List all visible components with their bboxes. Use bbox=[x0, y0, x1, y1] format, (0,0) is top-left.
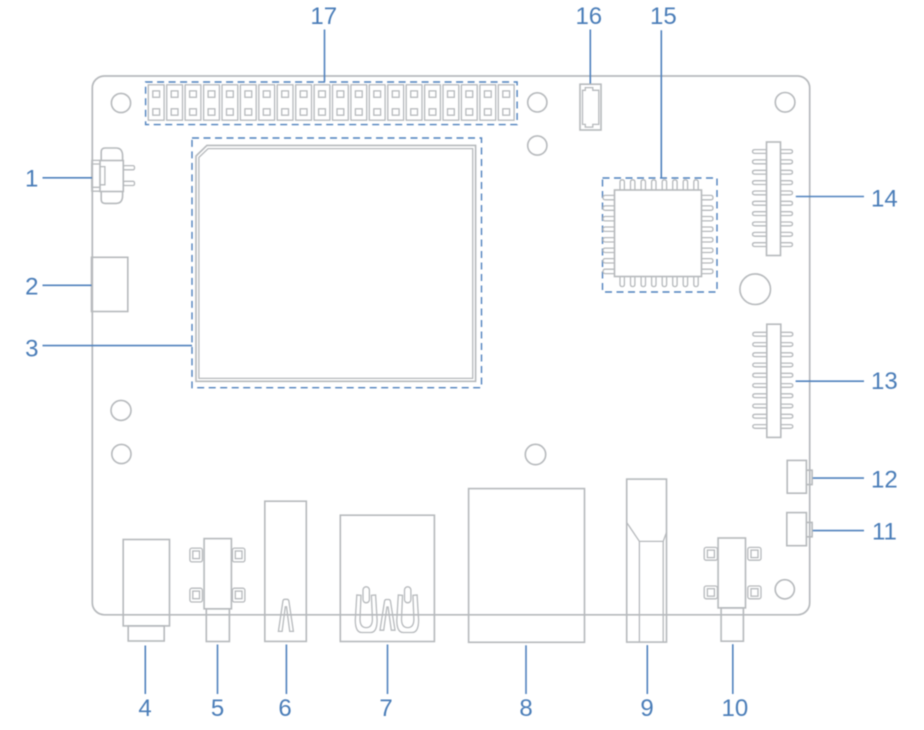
mounting hole top-right bbox=[775, 93, 795, 113]
component 14: dual-row header connector bbox=[753, 142, 793, 256]
svg-text:14: 14 bbox=[871, 186, 898, 213]
leader line 8 bbox=[525, 645, 527, 694]
svg-text:1: 1 bbox=[25, 165, 38, 192]
svg-text:5: 5 bbox=[211, 695, 224, 722]
svg-text:17: 17 bbox=[310, 3, 337, 30]
component 13: dual-row header connector bbox=[753, 324, 793, 437]
component 16: small connector bbox=[580, 84, 601, 130]
svg-text:16: 16 bbox=[575, 3, 602, 30]
label 9 bbox=[640, 695, 653, 722]
svg-text:3: 3 bbox=[25, 335, 38, 362]
svg-text:2: 2 bbox=[25, 274, 38, 301]
label 4 bbox=[138, 695, 151, 722]
mounting hole top-left bbox=[111, 93, 130, 112]
leader line 6 bbox=[285, 645, 287, 695]
svg-text:6: 6 bbox=[278, 695, 291, 722]
leader line 17 bbox=[324, 30, 326, 82]
leader line 1 bbox=[43, 177, 93, 179]
component 11: side button bbox=[787, 513, 812, 546]
svg-text:10: 10 bbox=[722, 695, 749, 722]
svg-text:11: 11 bbox=[872, 519, 897, 546]
leader line 12 bbox=[813, 477, 864, 479]
label 8 bbox=[519, 695, 532, 722]
svg-text:8: 8 bbox=[519, 695, 532, 722]
leader line 5 bbox=[217, 645, 219, 695]
component 8: Ethernet port bbox=[469, 489, 585, 643]
label 12 bbox=[871, 466, 898, 493]
leader line 7 bbox=[387, 645, 389, 695]
leader line 3 bbox=[43, 345, 193, 347]
leader line 2 bbox=[43, 284, 92, 286]
mounting hole mid-left-2 bbox=[112, 444, 131, 463]
label 16 bbox=[575, 3, 602, 30]
mounting hole bottom-center bbox=[525, 444, 545, 464]
component 7: USB 3.0 port bbox=[340, 515, 434, 641]
label 5 bbox=[211, 695, 224, 722]
label 7 bbox=[379, 695, 392, 722]
mounting hole mid-left-1 bbox=[111, 400, 131, 420]
label 13 bbox=[871, 368, 898, 395]
label 6 bbox=[278, 695, 291, 722]
leader line 10 bbox=[732, 644, 734, 694]
label 3 bbox=[25, 335, 38, 362]
label 1 bbox=[25, 165, 38, 192]
hole mid-right large bbox=[740, 274, 771, 305]
label 14 bbox=[871, 186, 898, 213]
mounting hole top-center-1 bbox=[528, 93, 547, 112]
component 4: audio jack bbox=[123, 540, 169, 642]
leader line 4 bbox=[144, 646, 146, 695]
label 17 bbox=[310, 3, 337, 30]
component 12: side button bbox=[787, 460, 812, 493]
component 9: HDMI port bbox=[627, 479, 667, 642]
component 5: micro USB power port bbox=[190, 539, 245, 642]
component 17: 40-pin GPIO header (dashed highlight) bbox=[146, 82, 517, 125]
component 15: QFP chip (dashed highlight) bbox=[603, 178, 718, 292]
board outline bbox=[92, 76, 809, 615]
mounting hole bottom-right bbox=[775, 580, 794, 599]
leader line 14 bbox=[796, 196, 864, 198]
component 3: main SoC chip (dashed highlight) bbox=[192, 138, 482, 388]
svg-text:7: 7 bbox=[379, 695, 392, 722]
mounting hole top-center-2 bbox=[528, 136, 547, 155]
leader line 16 bbox=[589, 30, 591, 84]
label 15 bbox=[650, 3, 677, 30]
label 10 bbox=[722, 695, 749, 722]
label 2 bbox=[25, 274, 38, 301]
svg-text:15: 15 bbox=[650, 3, 677, 30]
component 10: USB-C port bbox=[704, 538, 761, 641]
label 11 bbox=[872, 519, 897, 546]
svg-text:9: 9 bbox=[640, 695, 653, 722]
svg-text:4: 4 bbox=[138, 695, 151, 722]
leader line 15 bbox=[660, 30, 662, 177]
svg-text:13: 13 bbox=[871, 368, 898, 395]
svg-text:12: 12 bbox=[871, 466, 898, 493]
leader line 11 bbox=[813, 530, 864, 532]
component 6: USB 2.0 port bbox=[265, 501, 307, 641]
component 1: side push switch bbox=[92, 148, 135, 203]
leader line 9 bbox=[646, 645, 648, 694]
leader line 13 bbox=[796, 380, 864, 382]
component 2: left edge connector bbox=[92, 257, 128, 311]
